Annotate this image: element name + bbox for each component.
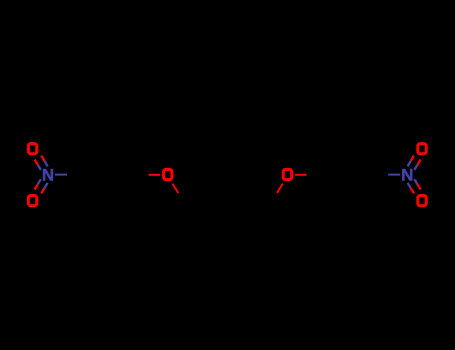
double bond N1=O2 upper-left, inner stroke blue half bbox=[44, 161, 47, 166]
double bond N2=O6 lower-right, outer stroke blue half bbox=[414, 179, 417, 184]
double bond N2=O5 upper-right, inner stroke red half bbox=[411, 156, 414, 161]
atom label O3 (lower-left nitro oxygen) bbox=[28, 196, 36, 206]
double bond N2=O5 upper-right, outer stroke red half bbox=[417, 160, 420, 165]
bond O4(ether left)-CH2 red half bbox=[172, 184, 178, 193]
atom label O4 (left ether oxygen) bbox=[164, 169, 172, 179]
bond CH2-O7(ether right) red half bbox=[277, 184, 283, 193]
double bond N2=O6 lower-right, outer stroke red half bbox=[417, 184, 420, 189]
double bond N1=O3 lower-left, inner stroke red half bbox=[41, 188, 44, 193]
double bond N1=O2 upper-left, outer stroke blue half bbox=[38, 165, 41, 170]
double bond N1=O3 lower-left, inner stroke blue half bbox=[44, 183, 47, 188]
double bond N2=O5 upper-right, inner stroke blue half bbox=[408, 161, 411, 166]
double bond N1=O2 upper-left, inner stroke red half bbox=[41, 156, 44, 161]
double bond N1=O3 lower-left, outer stroke blue half bbox=[38, 179, 41, 184]
double bond N1=O3 lower-left, outer stroke red half bbox=[35, 184, 38, 189]
bond O7(ether right)-C4'(ring) red half bbox=[295, 174, 306, 176]
svg-text:N: N bbox=[42, 166, 54, 185]
bond C1'(ring)-N2 blue half bbox=[388, 174, 400, 176]
svg-text:N: N bbox=[401, 166, 413, 185]
atom label O5 (upper-right nitro oxygen) bbox=[418, 144, 426, 154]
double bond N2=O6 lower-right, inner stroke blue half bbox=[408, 183, 411, 188]
atom label O2 (upper-left nitro oxygen) bbox=[28, 144, 36, 154]
double bond N2=O5 upper-right, outer stroke blue half bbox=[414, 165, 417, 170]
double bond N2=O6 lower-right, inner stroke red half bbox=[411, 188, 414, 193]
atom label O6 (lower-right nitro oxygen) bbox=[418, 196, 426, 206]
bond C4(ring)-O4(ether left) red half bbox=[149, 174, 160, 176]
double bond N1=O2 upper-left, outer stroke red half bbox=[35, 160, 38, 165]
bond N1-C1(ring) blue half bbox=[55, 174, 67, 176]
atom label O7 (right ether oxygen) bbox=[283, 169, 291, 179]
